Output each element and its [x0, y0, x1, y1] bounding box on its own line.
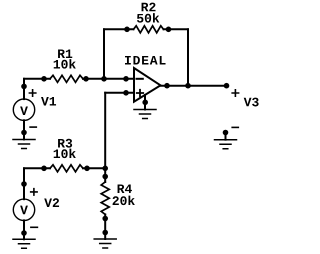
V1 minus sign — [30, 126, 36, 128]
wire: output rail — [161, 85, 227, 87]
label IDEAL — [125, 56, 166, 65]
label V1 — [41, 97, 56, 106]
resistor R3 — [50, 165, 83, 172]
wire: V1 bottom to ground — [23, 120, 25, 139]
junction dot R4 ground node — [102, 230, 108, 236]
wire: feedback top rail left segment — [104, 28, 134, 30]
reference ground symbol — [215, 140, 237, 149]
junction dot R2 right — [166, 27, 172, 33]
label R2 — [142, 3, 156, 12]
wire: node B vertical (to R3/R4 junction) — [104, 93, 106, 182]
V2 minus sign — [31, 226, 38, 228]
junction dot node B — [102, 166, 108, 172]
voltage source V2 — [13, 199, 34, 220]
wire: feedback top rail right segment — [164, 28, 189, 30]
junction dot R4 top — [102, 174, 108, 180]
V2 plus sign — [31, 189, 37, 195]
junction dot V1 minus terminal — [21, 130, 27, 136]
junction dot V2 minus terminal — [21, 230, 27, 236]
wire: reference ground stub — [225, 133, 227, 140]
label V2 — [44, 198, 59, 207]
wire: non-inverting input rail — [105, 92, 134, 94]
wire: inverting input rail left segment (V1 node to R1) — [24, 78, 50, 80]
V3 plus sign — [232, 90, 238, 96]
label V3 — [244, 98, 259, 107]
wire: R1 to op-amp inverting input — [83, 78, 134, 80]
label 20k — [113, 196, 135, 206]
label R4 — [118, 184, 132, 193]
ground below op-amp — [134, 110, 156, 119]
wire: feedback left vertical — [103, 29, 105, 79]
resistor R4 — [101, 182, 109, 214]
label 10k — [54, 59, 76, 69]
junction dot op-amp inverting input — [123, 76, 129, 82]
junction dot V2 plus terminal — [21, 181, 27, 187]
junction dot R2 left — [124, 27, 130, 33]
junction dot R1 right — [83, 76, 89, 82]
ground below V2 — [13, 239, 35, 248]
voltage source V1 — [13, 99, 34, 120]
resistor R1 — [50, 75, 83, 82]
reference ground minus sign — [232, 126, 238, 128]
junction dot op-amp output — [164, 83, 170, 89]
label V (V2 source symbol) — [20, 206, 28, 215]
junction dot R3 left — [41, 166, 47, 172]
junction dot op-amp non-inverting input — [123, 90, 129, 96]
label R3 — [58, 139, 72, 148]
op-amp non-inverting mark — [137, 90, 143, 96]
ground below V1 — [13, 140, 35, 149]
junction dot op-amp ground — [142, 100, 148, 106]
wire: V2 top vertical — [23, 168, 25, 199]
wire: R3 rail left segment (V2 node to R3) — [24, 167, 50, 169]
label 50k — [137, 13, 159, 23]
op-amp U1 triangle — [134, 68, 161, 102]
resistor R2 — [134, 26, 164, 33]
label V (V1 source symbol) — [20, 106, 28, 115]
wire: R3 to node B — [83, 167, 105, 169]
label R1 — [58, 49, 72, 58]
junction dot R3 right — [84, 166, 90, 172]
junction dot R1 left — [41, 76, 47, 82]
junction dot R4 bottom — [102, 216, 108, 222]
wire: feedback right vertical to output — [187, 29, 189, 85]
wire: R4 bottom to ground — [104, 214, 106, 239]
wire: V2 bottom to ground — [23, 220, 25, 239]
V1 plus sign — [29, 90, 35, 96]
wire: op-amp ground stub — [144, 95, 146, 110]
junction dot feedback node — [101, 76, 107, 82]
op-amp inverting mark — [137, 78, 143, 80]
junction dot V3 terminal — [224, 83, 230, 89]
junction dot output/feedback — [185, 83, 191, 89]
wire: V1 top vertical — [23, 79, 25, 99]
ground below R4 — [94, 239, 116, 248]
junction dot reference ground — [223, 130, 229, 136]
junction dot V1 plus terminal — [21, 84, 27, 90]
label 10k — [54, 149, 76, 159]
